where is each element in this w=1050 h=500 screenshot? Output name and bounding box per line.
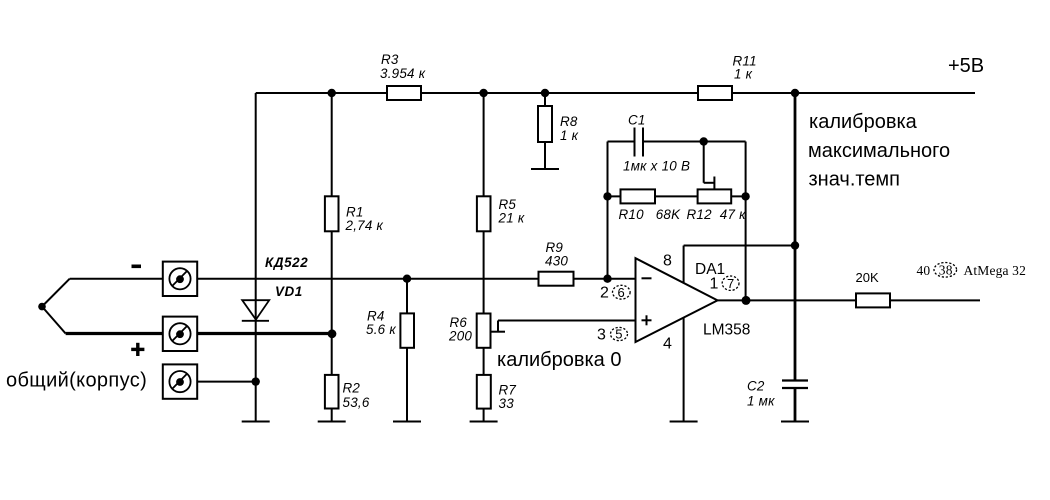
resistor R5 [477, 196, 491, 231]
resistor R4 [400, 313, 414, 347]
svg-text:максимального: максимального [808, 140, 950, 162]
wire R5/R6/R7 vertical [483, 93, 485, 422]
svg-text:3: 3 [597, 327, 606, 344]
svg-text:5: 5 [615, 327, 622, 342]
resistor 20K [856, 293, 890, 307]
svg-text:калибровка 0: калибровка 0 [497, 349, 621, 371]
resistor R1 [325, 196, 339, 231]
wire C1 loop right vertical [745, 142, 747, 301]
resistor R11 [698, 86, 732, 100]
svg-text:5.6 к: 5.6 к [366, 322, 396, 337]
wiper of R6 [491, 331, 506, 333]
svg-text:1 к: 1 к [560, 128, 579, 143]
node output junction [742, 296, 751, 305]
svg-text:3.954 к: 3.954 к [380, 66, 426, 81]
wire sensor apex upper diagonal [42, 279, 70, 307]
svg-text:33: 33 [499, 396, 515, 411]
svg-text:VD1: VD1 [275, 284, 303, 299]
op-amp DA1 [636, 258, 718, 342]
node rail-R1 [328, 89, 336, 97]
wire C1 top right segment [643, 141, 746, 143]
wire R1/R2 vertical [331, 93, 333, 422]
ground under R7 [470, 421, 498, 423]
node bold wire R2 [328, 329, 337, 338]
wire op-amp output [718, 299, 981, 301]
wire R10/R12 row [608, 195, 746, 197]
svg-text:1 к: 1 к [734, 67, 753, 82]
resistor R12 (trimmer) [698, 189, 732, 203]
wiper of R12 [703, 142, 705, 183]
svg-text:6: 6 [618, 285, 625, 300]
resistor R3 [387, 86, 421, 100]
wire op-amp pin 3 input [498, 320, 636, 322]
wire common terminal lead [197, 381, 255, 383]
node sensor apex [38, 303, 46, 311]
wire R8 vertical [544, 93, 546, 169]
svg-text:1 мк: 1 мк [747, 394, 775, 409]
svg-text:21 к: 21 к [498, 211, 525, 226]
label minus [132, 264, 142, 268]
svg-text:1: 1 [710, 276, 719, 293]
svg-text:4: 4 [663, 336, 672, 353]
terminal 3 (common) [163, 364, 197, 398]
ground under op-amp [670, 421, 698, 423]
diode VD1 [242, 300, 269, 319]
resistor R2 [325, 375, 339, 409]
svg-text:R3: R3 [381, 52, 399, 67]
node rail-R8 [541, 89, 549, 97]
terminal 2 (plus) [163, 317, 197, 351]
svg-text:знач.темп: знач.темп [809, 169, 901, 191]
svg-text:1мк x 10 В: 1мк x 10 В [623, 159, 690, 174]
node loop left row [603, 192, 611, 200]
wire main horizontal (sensor to op-amp pin 2) [197, 278, 635, 280]
resistor R7 [477, 375, 491, 409]
svg-text:КД522: КД522 [265, 255, 308, 270]
svg-text:7: 7 [727, 276, 734, 291]
node rail-+5 drop [791, 89, 799, 97]
svg-text:53,6: 53,6 [343, 395, 370, 410]
resistor R9 [539, 272, 574, 286]
wire +5V drop vertical to C2 [794, 93, 797, 381]
ground under R8 [531, 168, 559, 170]
ground under R2 [318, 421, 346, 423]
svg-text:R12 47 к: R12 47 к [687, 207, 747, 222]
wire pin 8 to +5V vertical [684, 245, 795, 247]
svg-text:R2: R2 [343, 381, 361, 396]
svg-text:C2: C2 [747, 379, 765, 394]
wire left vertical (diode branch) [255, 93, 257, 422]
wire +5V rail [256, 92, 975, 94]
svg-text:LM358: LM358 [703, 322, 750, 339]
ground under diode branch [242, 421, 270, 423]
svg-text:калибровка: калибровка [809, 111, 918, 133]
svg-text:+5В: +5В [948, 55, 984, 77]
node main-R4 [403, 275, 411, 283]
node loop right row [741, 192, 749, 200]
node common-diode branch [252, 377, 260, 385]
label plus [131, 348, 144, 351]
svg-text:40: 40 [917, 263, 931, 278]
svg-text:2: 2 [600, 285, 609, 302]
resistor R8 [538, 106, 552, 142]
svg-text:общий(корпус): общий(корпус) [6, 370, 147, 392]
terminal 1 (minus) [163, 262, 197, 296]
svg-text:38: 38 [939, 263, 953, 278]
wire op-amp pin 4 vertical [683, 318, 685, 422]
capacitor C2 [782, 379, 808, 381]
node pin2 junction [603, 275, 611, 283]
node C1 wiper junction [700, 137, 708, 145]
svg-text:8: 8 [663, 253, 672, 270]
ground under R4 [393, 421, 421, 423]
svg-text:AtMega 32: AtMega 32 [964, 263, 1026, 278]
wire op-amp pin 8 vertical [683, 246, 685, 283]
wire R4 vertical [406, 279, 408, 422]
svg-text:2,74 к: 2,74 к [345, 218, 384, 233]
svg-text:R8: R8 [560, 114, 578, 129]
wire C1 loop left vertical [607, 142, 609, 279]
svg-text:C1: C1 [628, 113, 646, 128]
svg-text:R10 68K: R10 68K [619, 207, 682, 222]
resistor R10 [621, 189, 656, 203]
ground under C2 [781, 421, 809, 423]
resistor R6 (trimmer) [477, 314, 491, 348]
node rail-R5 [479, 89, 487, 97]
node pin8 rail [791, 241, 799, 249]
svg-text:20K: 20K [856, 270, 879, 285]
svg-text:200: 200 [448, 329, 472, 344]
capacitor C1 [634, 128, 636, 157]
wire sensor apex lower diagonal [42, 307, 66, 334]
wire bold plus lead [66, 332, 335, 335]
wire C1 top left segment [608, 141, 635, 143]
wire sensor minus lead [70, 278, 164, 280]
svg-text:430: 430 [545, 254, 568, 269]
